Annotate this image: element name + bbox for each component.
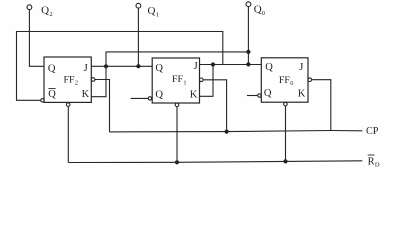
svg-text:1: 1 [183,79,186,86]
junction top link and Q0 lead [246,50,250,54]
wire J2K2 top link to net Q0 [106,52,248,66]
flip-flop FF0 box [261,58,308,102]
output bubble Qbar2 on FF2 left edge [41,99,44,102]
flip-flop FF2 box [44,57,91,102]
wire FF1 clock lead to CP [203,80,227,132]
svg-text:2: 2 [49,11,52,18]
svg-text:2: 2 [75,80,78,87]
wire FF2 reset lead [67,106,69,162]
svg-text:CP: CP [366,126,379,137]
terminal Q2 [27,5,32,10]
reset bubble FF0 bottom [284,102,288,106]
svg-text:Q: Q [254,4,262,16]
wire CP bus [110,131,363,132]
junction on net Q0 at K1 tie [211,62,215,66]
wire K2 tie to J2 [91,66,106,96]
svg-text:Q: Q [264,88,272,99]
svg-text:Q: Q [48,63,56,74]
label Q2 terminal [41,5,53,18]
label Q0 terminal [254,4,265,17]
output bubble Qbar0 on FF0 left edge [258,94,261,97]
wire K1 tie to J1 [200,65,214,97]
junction RD bus and FF0 reset lead [283,159,287,163]
pin label Qbar of FF2 [48,89,56,100]
label RD reset [368,155,380,169]
svg-text:FF: FF [64,75,75,86]
svg-text:K: K [82,89,90,100]
svg-text:0: 0 [262,10,265,17]
svg-text:Q: Q [265,62,273,73]
svg-text:D: D [375,162,380,169]
wire FF2 clock lead to CP [95,80,110,132]
wire Qbar1 stub [131,97,149,99]
wire net Q0: FF0 Q output to FF1 J input [200,64,262,66]
svg-text:J: J [194,61,198,72]
junction on net Q1 at J2/K2 tie [104,64,108,68]
label FF1 [172,74,187,86]
svg-text:FF: FF [279,75,290,86]
svg-text:Q: Q [41,5,49,17]
junction on net Q1 at Q1 terminal lead [136,64,140,68]
wire Qbar2 feedback: bubble to top rail across to J1 line [17,32,223,101]
svg-text:FF: FF [172,74,183,85]
reset bubble FF2 bottom [66,103,70,107]
wire Qbar0 stub [247,95,258,97]
svg-text:Q: Q [155,63,163,74]
svg-text:Q: Q [155,90,163,101]
label FF2 [64,75,79,87]
junction RD bus and FF1 reset lead [175,160,179,164]
svg-text:J: J [299,62,303,73]
svg-text:Q: Q [48,89,56,100]
wire Q1 terminal lead [137,8,139,66]
wire FF1 reset lead [176,107,178,163]
wire net Q1: FF1 Q output to FF2 J input [91,65,152,67]
clock bubble FF2 [91,78,95,82]
label Q1 terminal [148,5,160,18]
svg-text:0: 0 [290,80,293,87]
wire FF0 reset lead [285,106,287,161]
wire Q2 output lead [29,10,44,67]
terminal Q1 [136,3,141,8]
clock bubble FF0 [308,78,312,82]
label FF0 [279,75,294,87]
svg-text:1: 1 [156,11,159,18]
wire Q0 terminal lead [247,6,249,64]
reset bubble FF1 bottom [175,103,179,107]
svg-text:K: K [298,89,306,100]
wire FF0 clock lead to CP [312,80,331,131]
output bubble Qbar1 on FF1 left edge [148,97,151,100]
clock bubble FF1 [200,78,204,82]
svg-text:K: K [190,89,198,100]
junction CP bus and FF1 clock lead [225,130,229,134]
flip-flop FF1 box [152,58,199,103]
svg-text:R: R [368,156,375,167]
svg-text:J: J [84,63,88,74]
terminal Q0 [246,2,251,7]
junction on net Q0 at Q0 terminal lead [246,62,250,66]
svg-text:Q: Q [148,5,156,17]
wire RD reset bus [68,161,362,163]
